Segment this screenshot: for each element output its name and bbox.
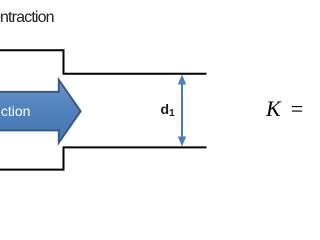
title text "contraction" (cropped at left edge) <box>0 9 54 27</box>
wire: top wall of large pipe <box>0 49 64 51</box>
wire: contraction step (bottom) <box>63 147 65 170</box>
formula K = (cropped at right edge) <box>266 96 303 122</box>
wire: top wall of small pipe <box>63 73 207 75</box>
wire: bottom wall of large pipe <box>0 169 64 171</box>
dimension arrow d1 (double-headed vertical) <box>178 75 186 147</box>
arrow label "direction" (cropped, shows "ction") <box>0 103 30 119</box>
label d1 <box>161 101 175 119</box>
wire: bottom wall of small pipe <box>63 146 207 148</box>
flow-direction block arrow (cropped at left edge) <box>0 80 81 143</box>
wire: contraction step (top) <box>63 49 65 74</box>
